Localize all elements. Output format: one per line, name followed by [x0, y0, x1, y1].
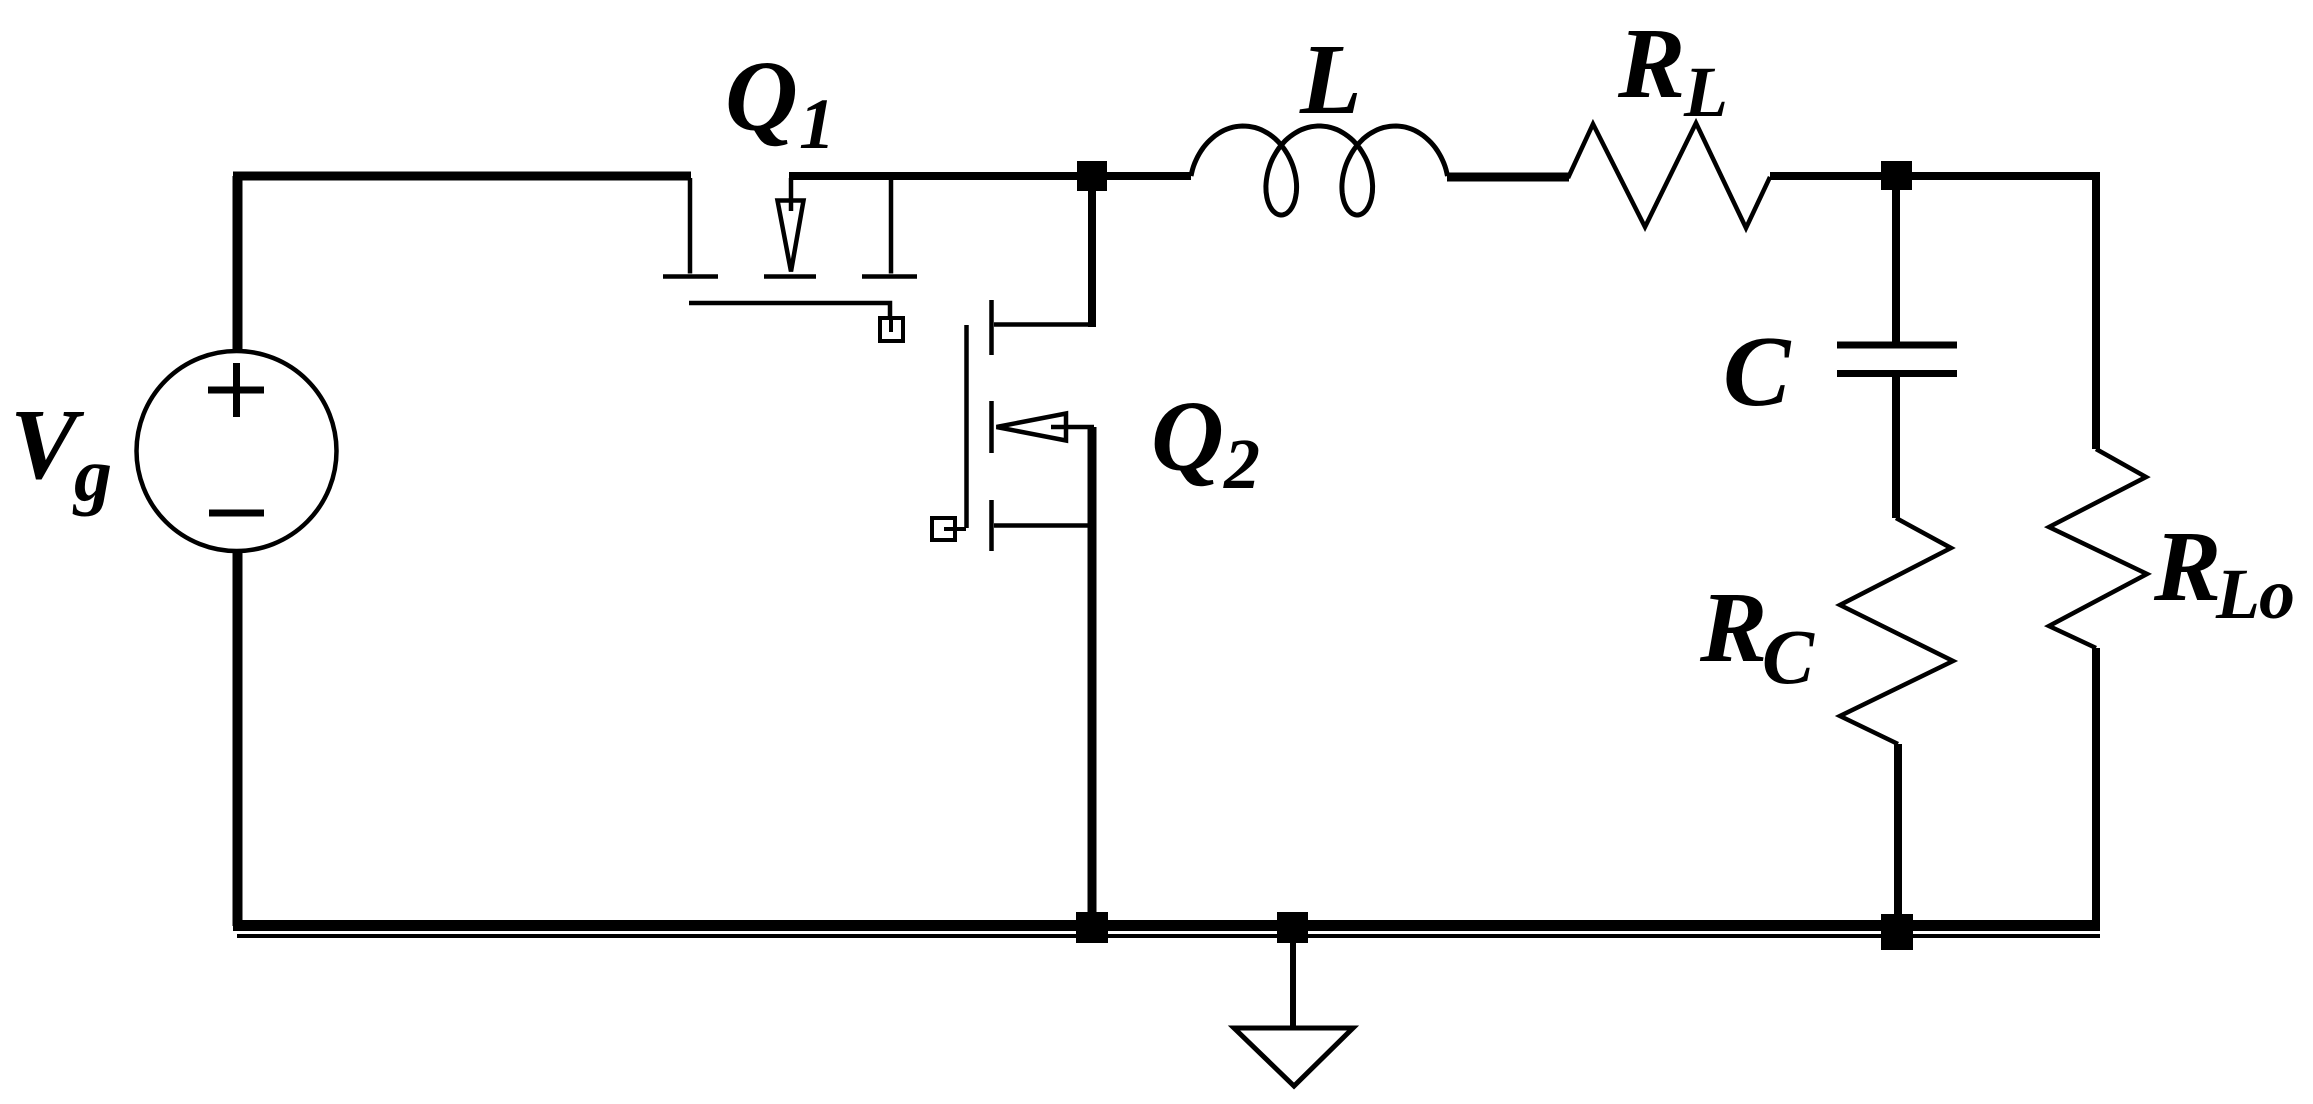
node B output node — [1881, 161, 1912, 190]
capacitor C — [1837, 345, 1957, 374]
svg-text:o: o — [2259, 554, 2295, 634]
svg-text:R: R — [2153, 510, 2221, 622]
svg-text:R: R — [1699, 571, 1767, 683]
transistor Q1 — [663, 178, 917, 341]
wire RL to node B — [1770, 172, 1896, 180]
resistor RLo — [2049, 449, 2147, 648]
bottom rail wire — [233, 920, 2100, 931]
svg-text:Q: Q — [725, 40, 798, 152]
wire node A down to Q2 drain — [1088, 190, 1096, 327]
svg-text:C: C — [1723, 315, 1792, 427]
wire RC to node D — [1894, 744, 1902, 926]
resistor RC — [1840, 518, 1953, 744]
ground — [1234, 943, 1353, 1086]
wire capacitor to RC — [1892, 376, 1900, 518]
svg-text:R: R — [1617, 7, 1685, 119]
inductor L — [1191, 126, 1448, 215]
node A switch node — [1077, 161, 1107, 191]
resistor RL — [1568, 123, 1770, 228]
wire node B to RLo top — [1896, 172, 2096, 449]
bottom rail second line — [237, 934, 2100, 938]
wire Q1 drain rail to node A — [789, 172, 1092, 180]
wire RLo to bottom rail — [2092, 648, 2100, 930]
svg-text:1: 1 — [799, 84, 835, 164]
svg-text:Q: Q — [1151, 380, 1224, 492]
wire inductor to RL — [1447, 173, 1569, 182]
wire Vg bottom to bottom rail — [233, 551, 243, 926]
node C Q2 bottom node — [1076, 912, 1108, 943]
svg-text:g: g — [72, 433, 112, 517]
node E ground node — [1277, 912, 1308, 943]
transistor Q2 — [932, 300, 1094, 551]
wire node A to inductor — [1092, 172, 1191, 180]
node D cap bottom node — [1881, 914, 1913, 950]
svg-text:2: 2 — [1223, 424, 1260, 504]
svg-text:L: L — [2215, 554, 2260, 634]
wire node B down to capacitor — [1892, 190, 1900, 342]
svg-text:L: L — [1683, 52, 1728, 132]
voltage source Vg — [137, 351, 337, 551]
svg-text:C: C — [1762, 613, 1815, 700]
wire Q2 source to node C — [1088, 427, 1097, 926]
wire Vg top to Q1 source — [233, 176, 243, 351]
svg-text:L: L — [1299, 23, 1362, 135]
